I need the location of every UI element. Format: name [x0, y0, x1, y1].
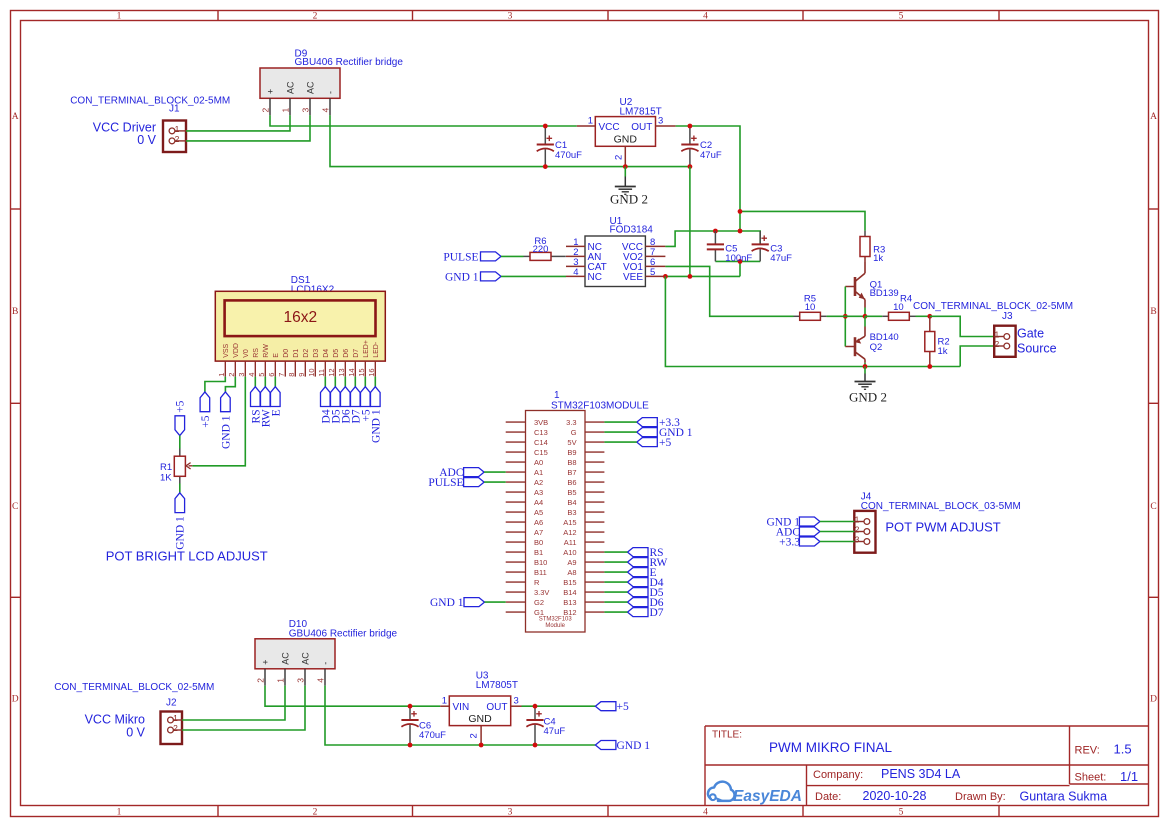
svg-text:CON_TERMINAL_BLOCK_03-5MM: CON_TERMINAL_BLOCK_03-5MM	[861, 501, 1021, 512]
svg-text:D1: D1	[293, 349, 300, 358]
junction C4 top	[533, 704, 538, 709]
svg-text:D0: D0	[283, 349, 290, 358]
net port GND 1 (bottom rail)	[595, 741, 616, 750]
svg-text:1: 1	[117, 11, 122, 21]
svg-text:Drawn By:: Drawn By:	[955, 791, 1006, 803]
svg-text:A1: A1	[534, 468, 543, 477]
svg-text:14: 14	[347, 368, 356, 376]
net port D7	[628, 608, 649, 617]
rectifier bridge D10	[255, 639, 335, 686]
junction C6 bottom	[408, 743, 413, 748]
svg-text:16: 16	[367, 368, 376, 376]
svg-text:GND 2: GND 2	[849, 390, 887, 405]
svg-text:E: E	[273, 353, 280, 358]
svg-text:A15: A15	[563, 518, 576, 527]
svg-text:1: 1	[280, 108, 290, 113]
svg-text:C14: C14	[534, 438, 548, 447]
svg-text:2: 2	[469, 733, 480, 738]
svg-text:5: 5	[899, 11, 904, 21]
svg-text:VSS: VSS	[223, 343, 230, 357]
net port +5 (R1 top)	[175, 416, 185, 436]
rectifier bridge D9	[260, 68, 340, 115]
svg-text:GBU406 Rectifier bridge: GBU406 Rectifier bridge	[295, 57, 404, 68]
svg-text:3: 3	[514, 696, 519, 707]
svg-text:GND: GND	[614, 133, 638, 145]
svg-text:Gate: Gate	[1017, 326, 1044, 340]
ground symbol GND2 near Q2	[855, 382, 876, 390]
svg-text:2: 2	[260, 108, 270, 113]
svg-text:GND 1: GND 1	[175, 516, 187, 550]
wire D6 from module	[604, 601, 627, 603]
wire Q2 collector to rail	[864, 363, 866, 367]
wire VEE row	[665, 275, 740, 277]
capacitor C1	[537, 126, 554, 167]
junction base node	[843, 314, 848, 319]
svg-text:3VB: 3VB	[534, 418, 548, 427]
R6 leads	[524, 255, 531, 257]
wire LCD.11 to port	[324, 377, 326, 387]
svg-text:1/1: 1/1	[1120, 769, 1138, 784]
svg-text:1: 1	[217, 373, 226, 377]
svg-text:2: 2	[313, 11, 318, 21]
svg-text:GND 1: GND 1	[370, 409, 382, 443]
junction cap bottom rail	[738, 259, 743, 264]
svg-text:A10: A10	[563, 548, 576, 557]
junction U3 GND to rail	[479, 743, 484, 748]
net port +3.3 (J4)	[799, 537, 820, 546]
svg-text:GND 1: GND 1	[220, 415, 232, 449]
junction rail at R2	[927, 364, 932, 369]
regulator U2 LM7815T	[577, 117, 676, 167]
net port GND 1 (LCD.16)	[371, 387, 381, 407]
svg-text:1K: 1K	[160, 473, 172, 484]
wire D4 from module	[604, 581, 627, 583]
svg-text:AC: AC	[305, 81, 315, 94]
wire D7 from module	[604, 611, 627, 613]
wire LCD.3 to R1 wiper	[192, 377, 245, 466]
svg-text:3: 3	[855, 535, 860, 545]
R1 leads	[179, 449, 181, 457]
svg-text:10: 10	[307, 368, 316, 376]
svg-text:D4: D4	[323, 349, 330, 358]
svg-text:GND 1: GND 1	[617, 740, 651, 752]
net port D5	[628, 588, 649, 597]
capacitor C3	[752, 231, 769, 261]
wire D9.4 to GND2 rail	[330, 115, 690, 166]
svg-text:GBU406 Rectifier bridge: GBU406 Rectifier bridge	[289, 628, 398, 639]
wire LCD.2 to GND1 port	[225, 377, 235, 392]
net port GND 1 (U1.4)	[481, 272, 502, 281]
svg-text:C: C	[1150, 502, 1156, 512]
regulator U3 LM7805T	[440, 696, 521, 745]
wire D10.2 to U3.VIN	[265, 686, 440, 707]
net port +3.3	[637, 418, 658, 427]
svg-text:PWM MIKRO FINAL: PWM MIKRO FINAL	[769, 740, 892, 755]
svg-text:Q2: Q2	[870, 342, 883, 353]
R3 leads	[864, 231, 866, 237]
svg-text:A9: A9	[567, 558, 576, 567]
svg-text:OUT: OUT	[486, 702, 507, 713]
svg-text:4: 4	[573, 267, 578, 278]
resistor R3	[860, 237, 870, 257]
svg-text:1: 1	[994, 330, 999, 340]
R5 leads	[794, 315, 800, 317]
svg-text:LM7805T: LM7805T	[476, 680, 518, 691]
svg-text:16x2: 16x2	[283, 309, 317, 326]
wire RS from module	[604, 551, 627, 553]
junction gate node	[927, 314, 932, 319]
svg-text:B3: B3	[567, 508, 576, 517]
svg-text:B0: B0	[534, 538, 543, 547]
net port +5 (LCD.1)	[200, 392, 210, 412]
svg-text:B8: B8	[567, 458, 576, 467]
net port E (LCD.6)	[271, 387, 281, 407]
wire +3.3 to J4	[820, 541, 854, 543]
wire rail to J3.2	[960, 346, 994, 367]
R2 leads	[929, 316, 931, 331]
svg-text:B6: B6	[567, 478, 576, 487]
svg-text:POT BRIGHT LCD ADJUST: POT BRIGHT LCD ADJUST	[106, 549, 268, 564]
svg-text:REV:: REV:	[1075, 744, 1100, 756]
wire LCD.12 to port	[334, 377, 336, 387]
svg-text:A3: A3	[534, 488, 543, 497]
svg-text:R1: R1	[160, 462, 172, 473]
svg-text:1: 1	[588, 116, 593, 127]
junction C2 bottom	[688, 164, 693, 169]
wire cap bottom rail	[715, 260, 760, 262]
LCD module DS1	[215, 291, 385, 361]
svg-text:D6: D6	[343, 349, 350, 358]
net port RS	[628, 548, 649, 557]
junction C5 top	[713, 229, 718, 234]
svg-text:5: 5	[257, 373, 266, 377]
resistor R6	[530, 252, 551, 260]
svg-text:LM7815T: LM7815T	[620, 106, 662, 117]
svg-text:2: 2	[313, 807, 318, 817]
wire LCD.4 to port	[254, 377, 256, 387]
svg-text:J1: J1	[169, 104, 180, 115]
svg-text:Source: Source	[1017, 342, 1057, 356]
svg-text:A5: A5	[534, 508, 543, 517]
capacitor C2	[681, 126, 698, 167]
net port D5 (LCD.12)	[331, 387, 341, 407]
svg-text:B14: B14	[563, 588, 576, 597]
svg-text:2: 2	[613, 155, 624, 160]
svg-text:A8: A8	[567, 568, 576, 577]
svg-text:4: 4	[315, 678, 325, 683]
net port D4 (LCD.11)	[321, 387, 331, 407]
svg-text:C13: C13	[534, 428, 548, 437]
svg-text:B15: B15	[563, 578, 576, 587]
svg-text:4: 4	[703, 807, 708, 817]
svg-text:3: 3	[300, 108, 310, 113]
capacitor C6	[401, 706, 418, 745]
svg-text:B: B	[12, 307, 18, 317]
net port ADC (J4)	[799, 527, 820, 536]
svg-text:A6: A6	[534, 518, 543, 527]
svg-text:+5: +5	[659, 437, 671, 449]
svg-text:J2: J2	[166, 698, 177, 709]
wire J2.1 to D10.1	[182, 686, 285, 720]
svg-text:R/W: R/W	[263, 344, 270, 358]
wire cap bottom to VEE row	[739, 261, 741, 276]
svg-text:Date:: Date:	[815, 791, 841, 803]
svg-text:RS: RS	[253, 348, 260, 358]
svg-text:1: 1	[173, 713, 178, 723]
svg-text:NC: NC	[588, 272, 602, 283]
svg-text:C: C	[12, 502, 18, 512]
svg-text:+5: +5	[200, 415, 212, 427]
svg-text:2: 2	[994, 339, 999, 349]
svg-text:D3: D3	[313, 349, 320, 358]
svg-text:PENS 3D4 LA: PENS 3D4 LA	[881, 767, 961, 781]
U2 ground connection	[624, 167, 626, 177]
wire GND 1 to J4	[820, 521, 854, 523]
potentiometer R1	[174, 456, 192, 476]
junction output node	[863, 314, 868, 319]
net port D7 (LCD.14)	[351, 387, 361, 407]
net port D4	[628, 578, 649, 587]
svg-text:STM32F103: STM32F103	[539, 617, 573, 623]
net port GND 1 (G2)	[464, 598, 485, 607]
svg-text:5V: 5V	[567, 438, 576, 447]
svg-text:470uF: 470uF	[555, 150, 582, 161]
svg-text:GND: GND	[468, 713, 492, 725]
svg-text:V0: V0	[243, 349, 250, 358]
svg-text:CON_TERMINAL_BLOCK_02-5MM: CON_TERMINAL_BLOCK_02-5MM	[913, 301, 1073, 312]
resistor R5	[800, 312, 821, 320]
resistor R2	[925, 332, 935, 352]
svg-text:VCC Mikro: VCC Mikro	[85, 713, 145, 727]
svg-text:TITLE:: TITLE:	[712, 730, 742, 741]
svg-text:LED-: LED-	[373, 341, 380, 358]
svg-text:Sheet:: Sheet:	[1075, 772, 1107, 784]
svg-text:PULSE: PULSE	[428, 477, 463, 489]
junction C4 bottom	[533, 743, 538, 748]
wire Q1 emitter to node	[864, 308, 866, 317]
svg-text:R: R	[534, 578, 540, 587]
svg-text:B7: B7	[567, 468, 576, 477]
svg-text:100nF: 100nF	[725, 253, 752, 264]
svg-text:3: 3	[508, 807, 513, 817]
svg-text:47uF: 47uF	[770, 253, 792, 264]
svg-text:B13: B13	[563, 598, 576, 607]
svg-text:D5: D5	[333, 349, 340, 358]
svg-text:12: 12	[327, 368, 336, 376]
svg-text:VEE: VEE	[623, 272, 643, 283]
net port E	[628, 568, 649, 577]
svg-text:CON_TERMINAL_BLOCK_02-5MM: CON_TERMINAL_BLOCK_02-5MM	[54, 682, 214, 693]
svg-text:E: E	[270, 409, 282, 416]
svg-text:13: 13	[337, 368, 346, 376]
wire VEE to emitter rail	[665, 276, 960, 366]
net port GND 1 (LCD.2)	[221, 392, 231, 412]
svg-text:1: 1	[855, 515, 860, 525]
wire D9.2 to U2.VIN rail +V	[270, 115, 577, 126]
R4 leads	[882, 315, 888, 317]
wire U1.VO1 to R5	[665, 266, 793, 316]
wire U3.OUT to +5 port	[522, 705, 596, 707]
wire E from module	[604, 571, 627, 573]
junction cap top rail	[738, 229, 743, 234]
ground symbol GND2 near U2	[615, 187, 636, 195]
svg-text:B: B	[1150, 307, 1156, 317]
wire PULSE to A2	[484, 481, 506, 483]
svg-text:+3.3: +3.3	[779, 536, 800, 548]
svg-text:1k: 1k	[938, 346, 948, 357]
optocoupler U1 FOD3184	[566, 236, 665, 287]
svg-text:1.5: 1.5	[1114, 741, 1132, 756]
svg-text:AC: AC	[280, 652, 290, 665]
wire ADC to J4	[820, 531, 854, 533]
svg-text:3.3V: 3.3V	[534, 588, 549, 597]
svg-text:PULSE: PULSE	[443, 251, 478, 263]
connector J2	[161, 712, 183, 745]
svg-text:OUT: OUT	[631, 122, 652, 133]
wire ADC to A1	[484, 471, 506, 473]
net port +5	[637, 438, 658, 447]
wire C2 bottom to VEE row	[689, 167, 691, 277]
junction VEE node a	[663, 274, 668, 279]
net port RW	[628, 558, 649, 567]
svg-text:2: 2	[855, 525, 860, 535]
svg-text:15: 15	[357, 368, 366, 376]
svg-text:2: 2	[173, 723, 178, 733]
svg-text:4: 4	[247, 373, 256, 377]
connector J3	[994, 326, 1015, 357]
svg-text:B4: B4	[567, 498, 576, 507]
net port RS (LCD.4)	[251, 387, 261, 407]
net port GND 1 (J4)	[799, 517, 820, 526]
wire GND1 to G2	[485, 601, 506, 603]
svg-text:47uF: 47uF	[700, 150, 722, 161]
transistor Q1 BD139	[845, 262, 865, 308]
svg-text:D2: D2	[303, 349, 310, 358]
wire D5 from module	[604, 591, 627, 593]
svg-text:4: 4	[703, 11, 708, 21]
svg-text:B5: B5	[567, 488, 576, 497]
svg-text:1: 1	[275, 678, 285, 683]
wire LCD.1 to +5 port	[205, 377, 225, 392]
svg-text:A11: A11	[564, 538, 577, 547]
svg-text:47uF: 47uF	[544, 726, 566, 737]
wire U2.OUT to +15 node	[676, 126, 740, 211]
wire J1.2 to D9.3	[186, 115, 310, 141]
svg-text:D: D	[12, 695, 19, 705]
junction C1 top	[543, 124, 548, 129]
svg-text:10: 10	[893, 302, 904, 313]
wire R4 to gate node	[916, 315, 930, 317]
svg-text:AC: AC	[285, 81, 295, 94]
svg-text:7: 7	[277, 373, 286, 377]
junction +15 node	[738, 209, 743, 214]
svg-text:220: 220	[533, 244, 549, 255]
svg-text:A2: A2	[534, 478, 543, 487]
wire +15 to R3	[740, 211, 865, 230]
svg-text:-: -	[325, 91, 335, 94]
net port +5 (U3 out)	[595, 702, 616, 711]
capacitor C4	[526, 706, 543, 745]
svg-text:A: A	[1150, 112, 1157, 122]
junction rail at Q2	[863, 364, 868, 369]
svg-text:0 V: 0 V	[126, 726, 145, 740]
svg-text:A7: A7	[534, 528, 543, 537]
svg-text:5: 5	[899, 807, 904, 817]
svg-text:10: 10	[805, 302, 816, 313]
svg-text:5: 5	[650, 267, 655, 278]
svg-text:1: 1	[117, 807, 122, 817]
net port +5 (LCD.15)	[361, 387, 371, 407]
wire LCD.15 to port	[364, 377, 366, 387]
svg-text:GND 2: GND 2	[610, 192, 648, 207]
resistor R4	[889, 312, 910, 320]
EasyEDA logo	[708, 782, 735, 801]
svg-text:B1: B1	[534, 548, 543, 557]
net port ADC (A1)	[464, 468, 485, 477]
svg-text:D7: D7	[353, 349, 360, 358]
svg-text:-: -	[320, 662, 330, 665]
svg-text:A: A	[12, 112, 19, 122]
junction U2 GND to rail	[623, 164, 628, 169]
svg-text:VIN: VIN	[453, 702, 470, 713]
net port PULSE (A2)	[464, 478, 485, 487]
svg-text:3.3: 3.3	[566, 418, 576, 427]
svg-text:+5: +5	[175, 400, 187, 412]
svg-text:Module: Module	[545, 623, 565, 629]
connector J4	[854, 511, 875, 553]
svg-text:2: 2	[255, 678, 265, 683]
svg-text:A12: A12	[563, 528, 576, 537]
svg-text:4: 4	[320, 108, 330, 113]
wire U1.VCC to cap top rail	[665, 231, 760, 246]
title block	[705, 726, 1149, 806]
svg-text:1: 1	[175, 124, 180, 134]
svg-text:BD139: BD139	[870, 288, 899, 299]
svg-text:B10: B10	[534, 558, 547, 567]
wire +5 to R1	[179, 436, 181, 449]
svg-text:6: 6	[267, 373, 276, 377]
svg-text:3: 3	[295, 678, 305, 683]
svg-text:D: D	[1150, 695, 1157, 705]
svg-text:2: 2	[227, 373, 236, 377]
svg-text:G: G	[571, 428, 577, 437]
svg-text:3: 3	[508, 11, 513, 21]
svg-text:D7: D7	[650, 607, 664, 619]
net port D6	[628, 598, 649, 607]
wire +5 from module	[604, 441, 636, 443]
wire J2.2 to D10.3	[182, 686, 305, 730]
wire PULSE to R6	[501, 255, 524, 257]
wire R1 to GND1	[179, 484, 181, 493]
wire output to R4	[865, 315, 882, 317]
wire J1.1 to D9.1	[186, 115, 290, 131]
wire base node to output node	[845, 315, 865, 317]
svg-text:1: 1	[554, 390, 560, 401]
svg-text:+: +	[260, 660, 270, 665]
svg-text:GND 1: GND 1	[430, 597, 464, 609]
svg-text:EasyEDA: EasyEDA	[733, 788, 802, 805]
wire R5 to base node	[827, 315, 846, 317]
svg-text:G2: G2	[534, 598, 544, 607]
svg-text:1: 1	[442, 696, 447, 707]
junction C2 top	[688, 124, 693, 129]
net port PULSE	[481, 252, 502, 261]
svg-text:9: 9	[297, 373, 306, 377]
svg-text:FOD3184: FOD3184	[610, 225, 654, 236]
svg-text:0 V: 0 V	[137, 133, 156, 147]
capacitor C5	[707, 231, 724, 261]
svg-text:2020-10-28: 2020-10-28	[863, 789, 927, 803]
